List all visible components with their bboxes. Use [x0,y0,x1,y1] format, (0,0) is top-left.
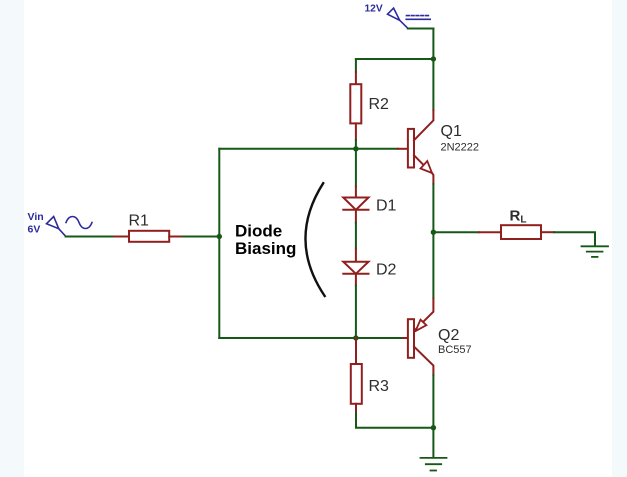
wire: R1 right lead [169,236,183,238]
ground (right) [582,246,609,257]
svg-text:Vin: Vin [28,211,44,223]
wire: D2 to bottom rail [355,286,357,339]
resistor R3 [351,338,362,413]
wire: Vin to R1 [66,236,115,238]
power flag 12V symbol [388,8,431,28]
source Vin symbol [47,217,93,237]
node D (output junction) [431,230,436,235]
svg-text:12V: 12V [365,3,383,14]
resistor R2 [350,72,361,140]
wire: top rail to Q1 base [219,148,398,150]
diode D1 [343,186,368,222]
right margin strip [612,0,627,477]
svg-text:Biasing: Biasing [235,239,296,258]
wire: node B to D1 [355,149,357,187]
transistor Q1 [408,110,434,184]
wire: D1 to D2 [355,223,357,249]
svg-text:D1: D1 [376,198,397,215]
wire: bottom rail to Q2 base [219,337,403,339]
svg-text:RL: RL [510,208,527,226]
wire: 12V to top node [408,28,434,30]
wire: RL to right ground [554,232,595,246]
node input junction [217,234,222,239]
svg-text:BC557: BC557 [438,344,472,356]
wire: R1 to input junction [183,236,219,238]
resistor RL [501,225,541,239]
wire: output node to RL [433,231,478,233]
wire: Q1 emitter to output node [432,184,434,232]
wire: R1 left lead [115,236,130,238]
svg-text:R3: R3 [369,378,390,395]
resistor R1 [129,231,169,242]
svg-text:Diode: Diode [235,222,282,241]
svg-text:6V: 6V [28,224,41,236]
svg-text:Q1: Q1 [441,123,462,140]
transistor Q2 [408,299,434,376]
svg-text:D2: D2 [376,262,397,279]
node E (ground junction) [431,425,436,430]
wire: R3 bottom corner [356,413,433,427]
wire: Q2 base lead [403,337,408,339]
diode D2 [343,249,368,286]
wire: Q1 base lead [398,148,408,150]
wire: R2 bottom to base node [355,140,357,149]
wire: RL left lead [479,231,501,233]
node B (base rail junction) [353,146,358,151]
brace curve [305,183,324,296]
svg-text:Q2: Q2 [438,327,459,344]
svg-text:2N2222: 2N2222 [441,142,480,154]
node C (bottom rail junction) [353,335,358,340]
left margin strip [0,0,24,477]
wire: left vertical of bias network [218,149,220,338]
wire: R2 top drop [355,59,357,72]
wire: RL right lead [541,231,554,233]
node A (junction top) [431,56,436,61]
wire: down to bottom ground [432,428,434,457]
wire: output node to Q2 emitter [432,232,434,298]
wire: Q2 collector to ground node [432,375,434,428]
wire: node A to R2 top [356,58,434,60]
svg-text:R2: R2 [369,96,390,113]
svg-text:R1: R1 [129,213,150,230]
wire: top vertical into node A [432,29,434,111]
ground (bottom) [421,458,447,471]
